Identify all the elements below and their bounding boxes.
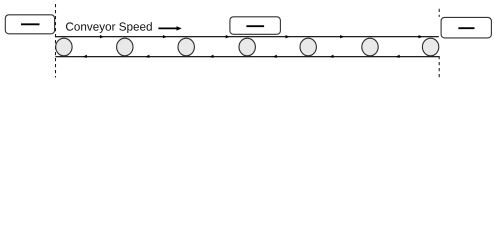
roller 7	[422, 38, 438, 56]
conveyor top belt line	[55, 36, 438, 38]
top belt arrowhead 5 (right)	[340, 35, 344, 38]
top belt arrowhead 2 (right)	[163, 35, 167, 38]
bottom belt arrowhead 4 (left)	[273, 55, 277, 58]
dashed boundary line right (upper segment)	[438, 9, 440, 17]
top belt arrowhead 4 (right)	[286, 35, 290, 38]
roller 4	[239, 38, 255, 56]
package box right	[441, 17, 491, 38]
roller 3	[178, 38, 194, 56]
conveyor bottom belt line	[55, 56, 439, 58]
roller 1	[56, 38, 72, 56]
roller 2	[117, 38, 133, 56]
roller 6	[362, 38, 378, 56]
minus label in middle box	[246, 25, 264, 27]
package box middle	[230, 17, 281, 35]
top belt arrowhead 6 (right)	[419, 35, 423, 38]
roller 5	[300, 38, 316, 56]
bottom belt arrowhead 1 (left)	[83, 55, 87, 58]
dashed boundary line left	[55, 4, 57, 78]
package box left	[5, 15, 54, 34]
minus label in right box	[458, 27, 474, 29]
dashed boundary line right (lower segment)	[438, 56, 440, 78]
bottom belt arrowhead 5 (left)	[329, 55, 333, 58]
bottom belt arrowhead 3 (left)	[209, 55, 213, 58]
top belt arrowhead 3 (right)	[226, 35, 230, 38]
minus label in left box	[21, 23, 40, 25]
conveyor speed direction arrow	[158, 27, 177, 29]
label: Conveyor Speed	[66, 22, 152, 33]
bottom belt arrowhead 2 (left)	[145, 55, 149, 58]
top belt arrowhead 1 (right)	[100, 35, 104, 38]
bottom belt arrowhead 6 (left)	[395, 55, 399, 58]
